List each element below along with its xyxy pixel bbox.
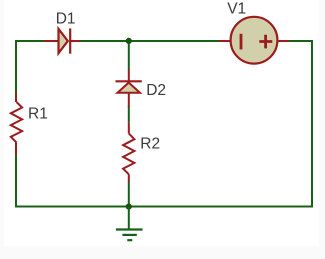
wire bottom horizontal [15,206,313,208]
ground [116,207,143,241]
node junction top [126,38,132,44]
resistor R1 [11,93,22,156]
wire middle branch top [128,41,130,70]
svg-text:D1: D1 [56,10,76,27]
svg-text:R2: R2 [140,135,160,152]
svg-text:D2: D2 [146,82,166,99]
wire right vertical [311,40,313,207]
voltage source V1 [219,17,290,64]
node junction bottom [126,204,132,210]
wire middle branch between D2 and R2 [128,106,130,122]
wire left vertical upper [15,40,17,93]
wire middle branch bottom [128,182,130,207]
wire top middle horizontal [80,40,220,42]
resistor R2 [123,122,134,182]
svg-text:V1: V1 [227,0,246,17]
diode D1 [44,28,81,53]
wire left vertical lower [15,155,17,208]
diode D2 [116,69,142,107]
wire top-right horizontal [289,40,313,42]
svg-text:R1: R1 [28,106,48,123]
wire top-left horizontal [15,40,46,42]
